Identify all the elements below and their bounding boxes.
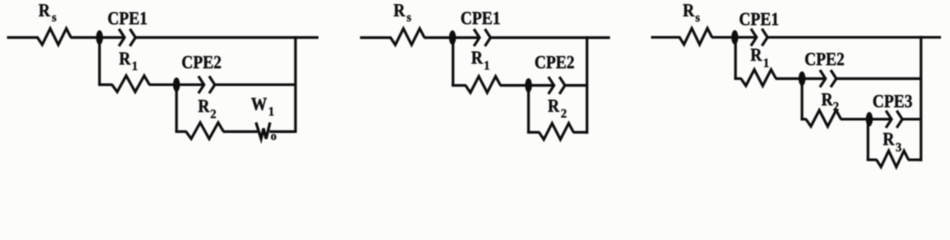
wire: right vertical rail (circuit 1) [294,36,297,133]
CPE1 symbol (circuit 1) [119,29,125,46]
node B (circuit 3) [799,71,806,85]
CPE2 symbol (circuit 1) [198,76,204,93]
CPE2 symbol (circuit 2) [548,77,554,94]
CPE2 symbol (circuit 3) [820,70,826,87]
wire: level-3 lead [527,131,539,134]
wire: CPE2 to right rail [215,83,296,86]
resistor R_s (circuit 2) [391,29,425,45]
CPE1 symbol (circuit 3) [751,29,757,46]
resistor R1 (circuit 3) [741,70,776,86]
node A (circuit 2) [449,30,456,44]
wire: right vertical rail (circuit 2) [586,36,589,134]
wire: level-2 lead [98,83,112,86]
wire: R1 to node B [776,77,826,80]
CPE3 symbol (circuit 3) [886,111,892,128]
wire: vertical from node B down [801,79,804,120]
circuit 2: Rs + (CPE1 || (R1 + (CPE2 || R2))) [360,4,610,139]
wire: vertical from node A down [734,37,737,78]
wire: left terminal of circuit 1 [7,36,39,39]
label CPE2 (circuit 3) [805,53,815,65]
CPE1 symbol (circuit 2) [474,29,480,46]
wire: R1 to node B [149,83,204,86]
label R_s (circuit 3) [683,4,694,16]
resistor R1 (circuit 2) [466,76,501,92]
circuit 1: Rs + (CPE1 || (R1 + (CPE2 || (R2 + W1)))) [7,4,319,140]
resistor R_s (circuit 1) [38,29,72,45]
wire: CPE1 to right terminal [768,36,942,39]
label W_1 (circuit 1) [251,98,267,110]
wire: Rs to node A [424,36,480,39]
wire: Warburg to right rail [270,130,296,133]
wire: level-2 lead [734,77,741,80]
label CPE1 (circuit 1) [108,12,118,24]
wire: level-3 lead [175,130,186,133]
wire: left terminal of circuit 3 [651,36,681,39]
wire: R2 to node C [841,118,892,121]
wire: level-3 lead [801,118,807,121]
resistor R_s (circuit 3) [680,28,713,44]
node B (circuit 1) [173,78,180,92]
label CPE3 (circuit 3) [873,95,883,107]
wire: CPE1 to right terminal [491,36,611,39]
wire: vertical from node B down [527,85,530,132]
Warburg element W1 (Wo symbol, circuit 1) [256,124,269,139]
label R_1 (circuit 3) [751,49,762,61]
circuit 3: Rs + (CPE1 || (R1 + (CPE2 || (R2 + (CPE3 || R3))))) [651,4,941,167]
wire: R2 to Warburg [223,130,258,133]
wire: Rs to node A [712,36,757,39]
wire: right vertical rail (circuit 3) [920,36,923,161]
label R_1 (circuit 2) [471,52,482,64]
wire: vertical from node A down [452,38,455,86]
wire: left terminal of circuit 2 [360,36,392,39]
wire: R1 to node B [500,84,554,87]
label R_3 (circuit 3) [883,133,894,145]
label R_s (circuit 1) [39,4,50,16]
label CPE2 (circuit 2) [535,56,545,68]
wire: R3 to right rail [908,158,921,161]
wire: vertical from node C down [867,119,870,160]
label R_2 (circuit 2) [548,100,559,112]
resistor R2 (circuit 1) [186,123,224,139]
resistor R2 (circuit 3) [806,110,841,126]
node C (circuit 3) [866,112,873,126]
label CPE2 (circuit 1) [182,56,192,68]
wire: level-4 lead [867,158,877,161]
wire: level-2 lead [452,84,466,87]
label R_s (circuit 2) [394,4,405,16]
wire: CPE3 to right rail [902,118,921,121]
wire: vertical from node A down to R1 branch [98,38,101,85]
wire: vertical from node B down to R2 branch [175,85,178,132]
resistor R3 (circuit 3) [877,151,909,167]
wire: CPE2 to right rail [836,77,921,80]
wire: R2 to right rail [573,131,587,134]
resistor R2 (circuit 2) [539,123,574,139]
wire: CPE2 to right rail [565,84,587,87]
node A (circuit 1) [96,30,103,44]
label CPE1 (circuit 2) [461,12,471,24]
label CPE1 (circuit 3) [740,13,750,25]
label R_2 (circuit 1) [198,100,209,112]
wire: CPE1 to right terminal [136,36,319,39]
label R_1 (circuit 1) [119,52,130,64]
wire: Rs to node A [71,36,125,39]
label R_2 (circuit 3) [822,93,833,105]
node B (circuit 2) [525,78,532,92]
resistor R1 (circuit 1) [112,76,150,92]
node A (circuit 3) [731,30,738,44]
